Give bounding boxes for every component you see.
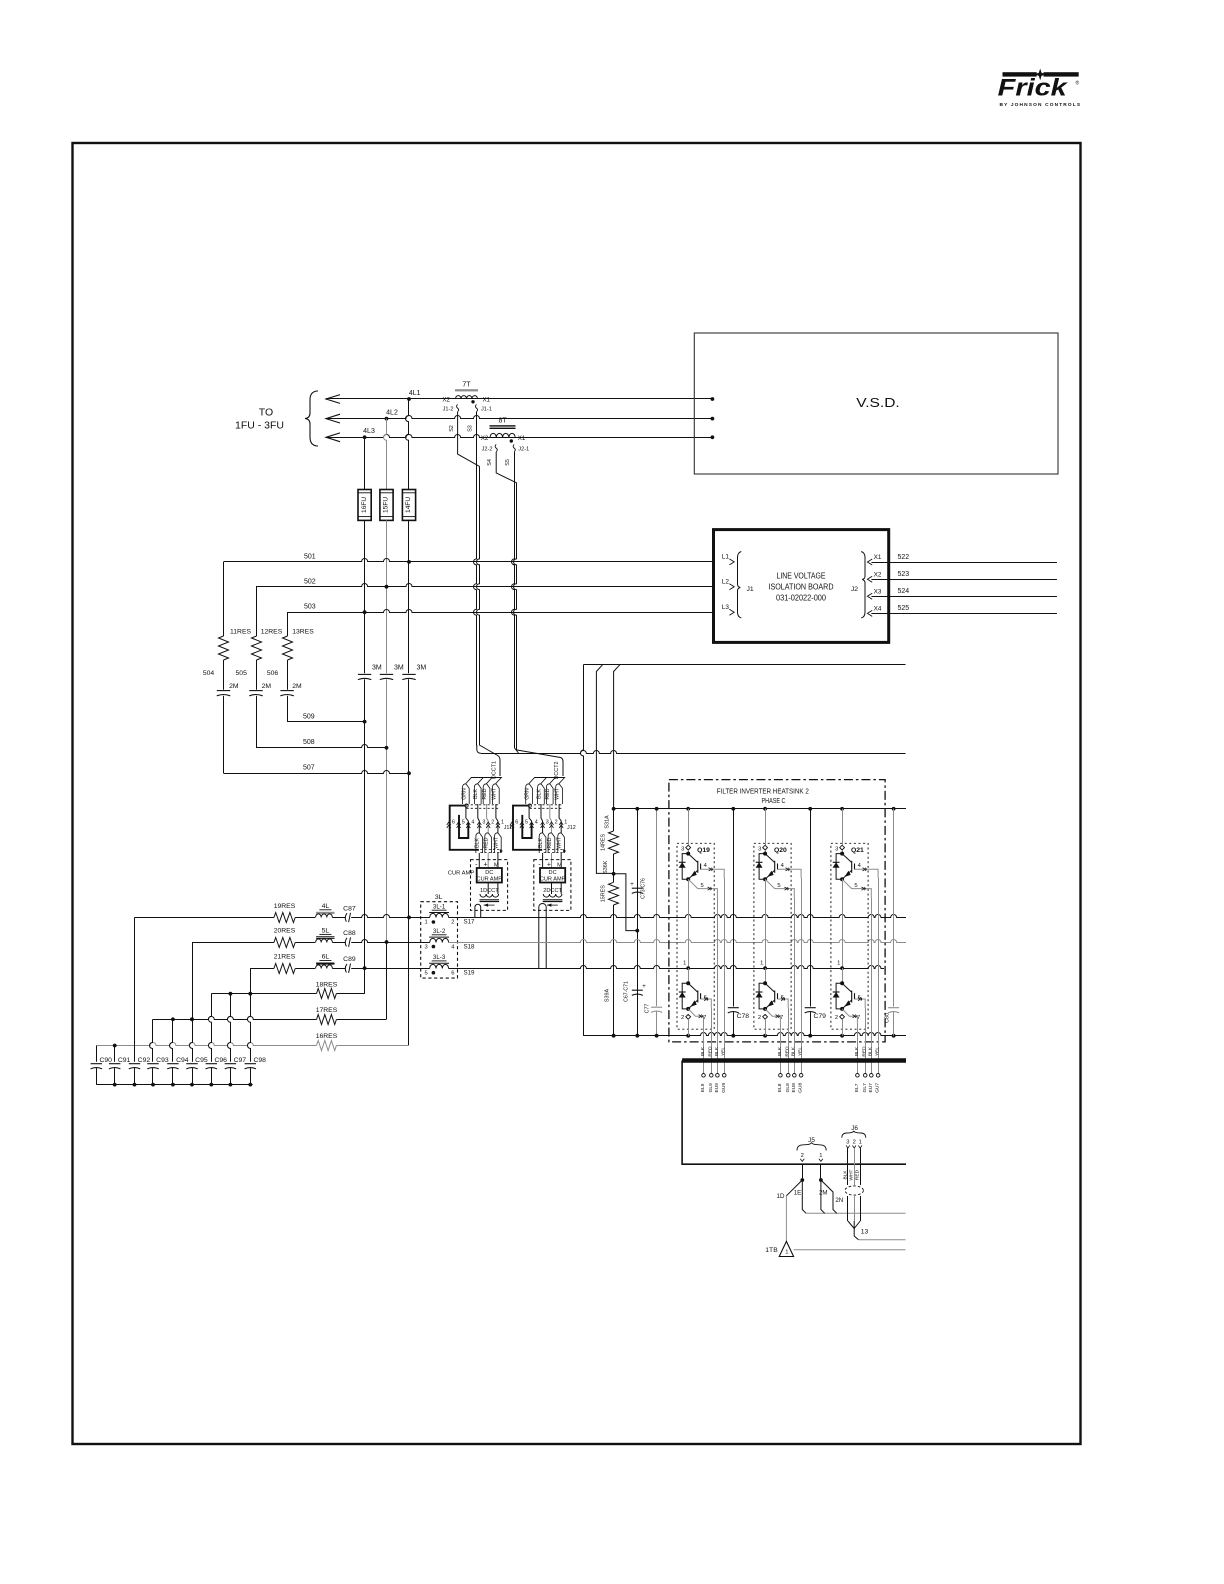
- svg-text:DC: DC: [549, 870, 557, 876]
- svg-text:GU7: GU7: [875, 1083, 881, 1093]
- svg-text:RED: RED: [708, 1046, 714, 1057]
- svg-text:PHASE C: PHASE C: [762, 796, 786, 805]
- svg-text:4L1: 4L1: [409, 390, 421, 397]
- svg-text:3L-3: 3L-3: [433, 954, 446, 961]
- svg-text:504: 504: [203, 670, 215, 677]
- svg-text:17RES: 17RES: [316, 1007, 338, 1014]
- svg-text:GL9: GL9: [708, 1083, 714, 1092]
- svg-text:4L3: 4L3: [363, 428, 375, 435]
- svg-text:S2: S2: [449, 425, 455, 432]
- connector J11: [447, 822, 451, 828]
- wire GL7: [865, 1008, 867, 1074]
- svg-text:2: 2: [801, 1153, 804, 1159]
- wire from 1TB: [794, 1249, 906, 1251]
- svg-text:YEL: YEL: [875, 1047, 881, 1056]
- svg-text:YEL: YEL: [798, 1047, 804, 1056]
- wire EU8: [794, 898, 796, 1074]
- svg-text:C95: C95: [195, 1057, 208, 1064]
- svg-text:031-02022-000: 031-02022-000: [776, 594, 827, 603]
- svg-text:5: 5: [854, 883, 857, 889]
- svg-text:2: 2: [451, 920, 454, 926]
- connector J2: [861, 552, 865, 619]
- svg-text:WHT: WHT: [557, 836, 563, 849]
- svg-text:J11: J11: [504, 825, 512, 831]
- wire flag RED: [485, 833, 492, 853]
- IGBT Q21 lower: [842, 983, 851, 992]
- svg-text:2M: 2M: [819, 1189, 828, 1196]
- junction 507: [407, 771, 411, 775]
- capacitor C80: [893, 809, 895, 1007]
- wire S18 row2 through 3L-2: [387, 942, 430, 944]
- svg-text:BLK: BLK: [714, 1046, 720, 1056]
- svg-text:5: 5: [777, 883, 780, 889]
- svg-text:L1: L1: [722, 554, 730, 561]
- svg-text:Q19: Q19: [697, 847, 710, 854]
- svg-text:®: ®: [1076, 80, 1080, 87]
- wire Q21 midpoint: [842, 879, 844, 968]
- wire trunk A y=664.7: [583, 664, 905, 666]
- wire flag BLK: [476, 833, 483, 853]
- wire 15FU chain down: [386, 520, 388, 673]
- svg-text:503: 503: [304, 604, 316, 611]
- svg-text:RED: RED: [785, 1046, 791, 1057]
- capacitor C77: [651, 1006, 662, 1008]
- svg-text:RED: RED: [545, 788, 551, 799]
- resistor 12RES: [252, 636, 262, 660]
- svg-text:3: 3: [846, 1139, 849, 1145]
- svg-text:1: 1: [819, 1153, 822, 1159]
- wire flag WHT: [493, 784, 500, 804]
- wire S3 7T secondary: [474, 412, 477, 746]
- svg-text:WHT: WHT: [849, 1169, 855, 1180]
- svg-text:7T: 7T: [462, 382, 471, 389]
- capacitor C92: [134, 917, 136, 1061]
- svg-text:6L: 6L: [322, 954, 330, 961]
- svg-text:J2-1: J2-1: [518, 447, 529, 453]
- wire 8T pair merge: [515, 748, 519, 753]
- svg-text:C92: C92: [138, 1057, 151, 1064]
- wire DC top bus y=808.8: [614, 808, 906, 810]
- VSD entry dot L1: [711, 397, 715, 401]
- junction trunk top bus: [612, 807, 616, 811]
- svg-text:BLK: BLK: [475, 838, 481, 848]
- junction 4L2: [385, 417, 389, 421]
- svg-text:+: +: [642, 983, 646, 990]
- wire flag GRN: [526, 784, 533, 804]
- wires J6 (13): [847, 1148, 849, 1185]
- svg-text:L2: L2: [722, 578, 730, 585]
- capacitor C95: [190, 942, 193, 1062]
- wire trunk B y=753 (7T/8T secondary bus): [477, 745, 481, 753]
- svg-text:J1-2: J1-2: [443, 407, 454, 413]
- svg-text:+: +: [630, 881, 634, 888]
- svg-text:4: 4: [471, 820, 474, 826]
- svg-text:WHT: WHT: [491, 787, 497, 800]
- svg-text:12RES: 12RES: [261, 629, 283, 636]
- svg-text:2M: 2M: [229, 683, 239, 690]
- svg-text:3: 3: [681, 846, 684, 852]
- svg-text:CUR AMP: CUR AMP: [540, 877, 566, 883]
- wire EU7: [871, 898, 873, 1074]
- wire flag RED: [548, 833, 555, 853]
- junction 502/15FU: [385, 585, 389, 589]
- capacitor C90: [96, 1046, 98, 1062]
- wire S39A: [613, 905, 615, 1036]
- svg-text:X2: X2: [442, 397, 450, 404]
- svg-text:4L2: 4L2: [386, 410, 398, 417]
- capacitor C94: [170, 1019, 173, 1061]
- Frick logo: [998, 69, 1082, 108]
- svg-text:EU7: EU7: [868, 1083, 874, 1093]
- IGBT module Q21: [831, 843, 868, 1029]
- wire bus to Q19 pin3: [688, 809, 690, 845]
- svg-text:1: 1: [424, 920, 427, 926]
- svg-text:J2: J2: [851, 586, 858, 593]
- junction S36K: [612, 872, 616, 876]
- svg-text:BLK: BLK: [538, 838, 544, 848]
- svg-text:13RES: 13RES: [292, 629, 314, 636]
- svg-text:2M: 2M: [292, 683, 302, 690]
- wire x637 with caps: [637, 809, 639, 1036]
- line voltage isolation board: [714, 530, 889, 643]
- resistor 20RES: [193, 942, 274, 944]
- resistor 21RES: [250, 968, 274, 970]
- svg-text:1DCCT: 1DCCT: [480, 888, 499, 894]
- wire to cap 506: [287, 660, 289, 690]
- wire S36K jumper to C73: [614, 874, 638, 931]
- svg-text:5: 5: [424, 970, 427, 976]
- svg-text:524: 524: [898, 588, 910, 595]
- svg-text:502: 502: [304, 578, 316, 585]
- inductor block 3L: [421, 902, 458, 978]
- svg-text:3: 3: [424, 944, 427, 950]
- svg-text:X1: X1: [483, 397, 491, 404]
- wire flag BLK: [474, 784, 481, 804]
- wire phase L3: [326, 433, 340, 442]
- svg-text:2N: 2N: [835, 1197, 843, 1204]
- wire J5-1 (2M/2N): [820, 1164, 822, 1180]
- svg-text:S31A: S31A: [605, 815, 611, 829]
- svg-text:X2: X2: [874, 571, 882, 578]
- resistor 11RES: [219, 636, 229, 660]
- junction 501/14FU: [407, 560, 411, 564]
- wire bus to Q21 pin3: [842, 809, 844, 845]
- wire flag RED: [483, 784, 490, 804]
- svg-text:16RES: 16RES: [316, 1033, 338, 1040]
- wire S4 8T secondary: [496, 452, 517, 483]
- svg-text:6: 6: [515, 820, 518, 826]
- capacitor C89: [332, 968, 345, 970]
- wire flag BLK: [539, 833, 546, 853]
- svg-text:4: 4: [535, 820, 538, 826]
- wire Q20 midpoint: [765, 879, 767, 968]
- svg-text:509: 509: [303, 713, 315, 720]
- svg-text:15FU: 15FU: [383, 497, 390, 513]
- V.S.D. box: [694, 333, 1058, 474]
- junction 4L1: [407, 397, 411, 401]
- junction 508: [385, 746, 389, 750]
- wire GU8: [801, 878, 803, 1074]
- wire cap bank bus: [96, 1084, 252, 1086]
- resistor 13RES: [283, 636, 293, 660]
- svg-text:S18: S18: [463, 943, 475, 950]
- svg-text:J2-2: J2-2: [482, 447, 493, 453]
- svg-text:BLK: BLK: [777, 1046, 783, 1056]
- svg-text:DCCT1: DCCT1: [491, 761, 497, 779]
- wire EL8: [780, 1024, 782, 1074]
- svg-text:C94: C94: [176, 1057, 189, 1064]
- svg-text:C89: C89: [343, 956, 356, 963]
- svg-text:1FU - 3FU: 1FU - 3FU: [235, 420, 284, 432]
- svg-text:C80: C80: [884, 1013, 890, 1023]
- capacitor C78: [733, 809, 735, 1007]
- wire flag GRN: [463, 784, 470, 804]
- svg-text:Frick: Frick: [998, 74, 1068, 101]
- svg-text:S5: S5: [505, 459, 511, 466]
- svg-text:C77: C77: [645, 1004, 651, 1014]
- svg-text:Q21: Q21: [851, 847, 864, 854]
- svg-text:2: 2: [853, 1139, 856, 1145]
- svg-text:2: 2: [681, 1015, 684, 1021]
- svg-text:X2: X2: [481, 435, 489, 442]
- svg-text:C67-C71: C67-C71: [624, 981, 630, 1002]
- svg-text:523: 523: [898, 571, 910, 578]
- wire vertical x583: [581, 665, 584, 1036]
- svg-text:2: 2: [491, 820, 494, 826]
- svg-text:1D: 1D: [777, 1193, 785, 1200]
- svg-text:S19: S19: [463, 969, 475, 976]
- wire S5 8T secondary: [512, 452, 515, 748]
- svg-text:19RES: 19RES: [274, 903, 296, 910]
- svg-text:RED: RED: [547, 837, 553, 848]
- svg-text:J1: J1: [747, 586, 754, 593]
- svg-text:C91: C91: [118, 1057, 131, 1064]
- wire flag RED: [546, 784, 553, 804]
- wire 14FU drop from line1: [406, 399, 409, 490]
- wire 14FU chain down: [408, 520, 410, 673]
- svg-text:C79: C79: [813, 1013, 826, 1020]
- wire DC bottom bus y=1035.7: [583, 1033, 906, 1036]
- svg-text:16FU: 16FU: [361, 497, 368, 513]
- svg-text:ISOLATION BOARD: ISOLATION BOARD: [769, 583, 834, 592]
- 2DCCT primary thread loop: [539, 904, 546, 969]
- wire 4L1 line: [326, 398, 712, 400]
- svg-text:501: 501: [304, 553, 316, 560]
- wire 4L3 line: [326, 435, 712, 438]
- IGBT module Q20: [754, 843, 791, 1029]
- IGBT Q21 upper: [842, 854, 851, 863]
- svg-text:BLK: BLK: [842, 1170, 848, 1180]
- svg-text:4L: 4L: [322, 903, 330, 910]
- svg-text:S39A: S39A: [605, 989, 611, 1003]
- svg-text:EL9: EL9: [700, 1083, 706, 1092]
- svg-text:1: 1: [785, 1250, 788, 1256]
- resistor 19RES: [135, 917, 274, 919]
- svg-text:GL8: GL8: [785, 1083, 791, 1092]
- wire vertical x596 merge: [596, 665, 613, 874]
- wire S2 7T secondary: [458, 412, 480, 467]
- svg-text:18RES: 18RES: [316, 981, 338, 988]
- wire GL9: [711, 1008, 713, 1074]
- wire 15FU drop from line2: [384, 419, 387, 490]
- svg-text:Q20: Q20: [774, 847, 787, 854]
- IGBT module Q19: [677, 843, 714, 1029]
- wire phase L2: [326, 414, 340, 423]
- IGBT Q20 upper: [765, 854, 774, 863]
- wire GU7: [878, 878, 880, 1074]
- svg-text:1: 1: [683, 960, 686, 966]
- capacitor C93: [150, 1019, 153, 1061]
- svg-text:11RES: 11RES: [230, 629, 251, 636]
- wire flag WHT: [495, 833, 502, 853]
- capacitor 3M (16FU line): [358, 673, 371, 675]
- wire to cap 504: [223, 660, 225, 690]
- wire 501 drop to 11RES: [223, 562, 225, 636]
- junction 503/16FU: [363, 610, 367, 614]
- capacitor C79: [810, 809, 812, 1007]
- wire EL9: [703, 1024, 705, 1074]
- svg-text:EU8: EU8: [791, 1083, 797, 1093]
- capacitor C98: [248, 968, 251, 1062]
- svg-text:3M: 3M: [394, 665, 404, 672]
- wire bus to Q20 pin3: [765, 809, 767, 845]
- wire x656: [656, 809, 658, 1006]
- svg-text:1: 1: [760, 960, 763, 966]
- wire 503 drop to 13RES: [287, 612, 289, 636]
- svg-text:C78: C78: [737, 1013, 750, 1020]
- svg-text:2: 2: [758, 1015, 761, 1021]
- svg-text:5: 5: [700, 883, 703, 889]
- svg-text:X3: X3: [874, 589, 882, 596]
- svg-text:508: 508: [303, 739, 315, 746]
- svg-text:2: 2: [555, 820, 558, 826]
- svg-text:5L: 5L: [322, 928, 330, 935]
- wire flag WHT: [556, 784, 563, 804]
- svg-text:2DCCT: 2DCCT: [543, 888, 562, 894]
- svg-text:20RES: 20RES: [274, 928, 296, 935]
- svg-text:GRN: GRN: [525, 788, 531, 800]
- wire 508 drop: [256, 696, 258, 748]
- capacitor C88: [332, 942, 345, 944]
- svg-text:522: 522: [898, 554, 910, 561]
- svg-text:V.S.D.: V.S.D.: [856, 395, 900, 410]
- wire 509 drop: [287, 696, 289, 722]
- wire S17 row1 through 3L-1: [409, 917, 430, 919]
- svg-text:YEL: YEL: [721, 1047, 727, 1056]
- wire to cap 505: [256, 660, 258, 690]
- wire to DCCT1: [479, 745, 500, 776]
- VSD entry dot L3: [711, 435, 715, 439]
- svg-text:EU9: EU9: [714, 1083, 720, 1093]
- svg-text:5: 5: [462, 820, 465, 826]
- svg-text:506: 506: [267, 670, 279, 677]
- junction 4L3: [363, 435, 367, 439]
- svg-text:GRN: GRN: [461, 788, 467, 800]
- svg-text:3M: 3M: [417, 665, 427, 672]
- svg-text:1: 1: [859, 1139, 862, 1145]
- svg-text:C88: C88: [343, 930, 356, 937]
- svg-text:3L-1: 3L-1: [433, 903, 446, 910]
- terminal 1TB: [779, 1241, 793, 1256]
- border frame: [73, 143, 1081, 1444]
- wire to DCCT2: [517, 750, 563, 776]
- wire 16FU drop from line3: [364, 437, 366, 489]
- svg-text:WHT: WHT: [555, 787, 561, 800]
- svg-text:LINE VOLTAGE: LINE VOLTAGE: [777, 572, 826, 581]
- wire 16FU chain down: [364, 520, 366, 673]
- svg-text:3: 3: [758, 846, 761, 852]
- svg-text:3L-2: 3L-2: [433, 928, 446, 935]
- wire 507 drop: [223, 696, 225, 774]
- brace feeder bundle: [305, 391, 318, 446]
- svg-text:2M: 2M: [262, 683, 272, 690]
- wire J5-2 (1E/1D): [802, 1164, 804, 1180]
- wire EL7: [857, 1024, 859, 1074]
- svg-text:WHT: WHT: [493, 836, 499, 849]
- wire GL8: [788, 1008, 790, 1074]
- svg-text:RED: RED: [482, 788, 488, 799]
- thick jumper wires: [450, 806, 479, 850]
- capacitor C91: [114, 1046, 116, 1062]
- 1DCCT primary thread loop: [475, 904, 481, 917]
- svg-text:S17: S17: [463, 919, 475, 926]
- svg-text:14FU: 14FU: [405, 497, 412, 513]
- svg-text:RED: RED: [484, 837, 490, 848]
- svg-text:S3: S3: [468, 425, 474, 432]
- gate driver board box: [682, 1058, 906, 1062]
- svg-text:L3: L3: [722, 604, 730, 611]
- svg-text:6: 6: [451, 970, 454, 976]
- svg-text:15RES: 15RES: [601, 885, 607, 902]
- svg-text:RED: RED: [862, 1046, 868, 1057]
- transformer 7T primary: [455, 389, 478, 391]
- wire 502 drop to 12RES: [256, 587, 258, 636]
- svg-text:CUR AMP: CUR AMP: [448, 870, 475, 876]
- svg-text:BLK: BLK: [868, 1046, 874, 1056]
- svg-text:BLK: BLK: [791, 1046, 797, 1056]
- svg-text:525: 525: [898, 605, 910, 612]
- capacitor 3M (15FU line): [380, 673, 393, 675]
- junction C73 wire: [635, 929, 639, 933]
- wire vertical x613 merge: [614, 665, 620, 809]
- svg-text:14RES: 14RES: [601, 834, 607, 851]
- fuse 16FU: [358, 490, 371, 521]
- svg-text:BLK: BLK: [536, 789, 542, 799]
- wire S2 pair continues: [477, 466, 480, 745]
- svg-text:1TB: 1TB: [765, 1247, 778, 1254]
- svg-text:21RES: 21RES: [274, 954, 296, 961]
- current amplifier 2DCCT: [534, 860, 571, 911]
- svg-text:S36K: S36K: [603, 860, 609, 874]
- capacitor C87: [332, 917, 345, 919]
- svg-text:S4: S4: [487, 459, 493, 466]
- fuse 14FU: [402, 490, 415, 521]
- svg-text:3: 3: [482, 820, 485, 826]
- svg-text:3L: 3L: [435, 894, 443, 901]
- svg-text:DCCT2: DCCT2: [554, 762, 560, 780]
- connector J12: [510, 822, 514, 828]
- svg-text:3M: 3M: [372, 665, 382, 672]
- svg-text:GU9: GU9: [721, 1083, 727, 1093]
- svg-text:EL8: EL8: [777, 1083, 783, 1092]
- svg-text:C97: C97: [234, 1057, 247, 1064]
- svg-text:1E: 1E: [794, 1189, 802, 1196]
- svg-text:DC: DC: [485, 870, 493, 876]
- junction 509: [363, 720, 367, 724]
- svg-text:C90: C90: [99, 1057, 112, 1064]
- wire 4L2 line: [326, 416, 712, 419]
- svg-text:3: 3: [835, 846, 838, 852]
